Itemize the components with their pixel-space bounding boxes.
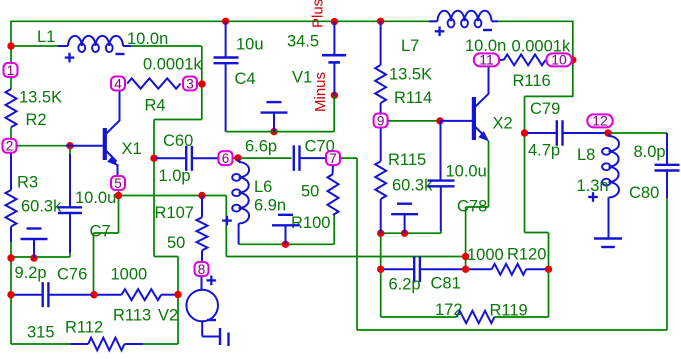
node 11 xyxy=(474,52,499,68)
node 9 xyxy=(374,113,388,128)
svg-text:C7: C7 xyxy=(90,223,111,241)
junction L6 ground xyxy=(282,241,289,248)
junction R115 ground xyxy=(401,230,408,237)
label R114 xyxy=(394,89,432,107)
wire L1 row left xyxy=(11,45,58,47)
wire C60 branch vertical xyxy=(153,120,155,257)
L1 minus mark xyxy=(116,53,125,55)
svg-text:3: 3 xyxy=(186,76,194,91)
svg-text:2: 2 xyxy=(6,139,14,154)
junction C79 left xyxy=(521,129,528,136)
label X2 xyxy=(493,115,513,133)
L7 minus mark xyxy=(483,29,492,31)
resistor R107 xyxy=(197,196,208,262)
wire node6 to C70 xyxy=(242,157,292,159)
value 6.2p of C81 xyxy=(389,276,421,294)
wire R119 right leg xyxy=(548,269,550,317)
wire top rail left segment xyxy=(11,20,438,22)
wire R120 top jog xyxy=(525,232,549,234)
label L8 xyxy=(577,146,595,164)
label R4 xyxy=(145,97,166,115)
svg-text:5: 5 xyxy=(114,176,122,191)
capacitor C78 xyxy=(428,121,455,231)
wire top rail right segment xyxy=(492,20,573,22)
wire L1 row drop to node3 xyxy=(201,46,203,84)
svg-text:V1: V1 xyxy=(292,69,312,87)
value 0.0001k of R4 xyxy=(143,56,202,74)
svg-text:1000: 1000 xyxy=(467,246,504,264)
svg-text:34.5: 34.5 xyxy=(287,33,319,51)
wire C7 branch top xyxy=(69,146,71,155)
wire R119 bottom row right xyxy=(494,316,548,318)
capacitor C79 xyxy=(527,120,605,146)
node 5 xyxy=(111,176,125,191)
value 10.0n of L7 xyxy=(465,37,506,55)
label C70 xyxy=(305,138,335,156)
wire R100 bottom lead xyxy=(333,215,335,244)
svg-text:10: 10 xyxy=(551,52,567,68)
source V2 xyxy=(186,277,219,337)
junction emitter bus xyxy=(462,253,469,260)
svg-text:4: 4 xyxy=(114,76,122,91)
value 172 of R119 xyxy=(435,301,463,319)
svg-text:13.5K: 13.5K xyxy=(19,89,62,107)
svg-text:60.3k: 60.3k xyxy=(392,177,433,195)
wire L6 bay drop xyxy=(225,196,227,257)
label R115 xyxy=(388,151,426,169)
label R2 xyxy=(26,111,47,129)
node 10 xyxy=(546,52,571,68)
ground R3 xyxy=(21,229,48,259)
svg-text:4.7p: 4.7p xyxy=(528,142,560,160)
value 13.5K of R114 xyxy=(389,66,432,84)
ground C4 xyxy=(261,102,288,132)
svg-text:1.0p: 1.0p xyxy=(159,167,191,185)
value 8.0p of C80 xyxy=(634,143,666,161)
battery V1 xyxy=(322,22,346,96)
wire L1 row right xyxy=(131,45,202,47)
wire R115 ground row xyxy=(381,232,441,234)
inductor L6 xyxy=(232,159,249,244)
label C4 xyxy=(235,70,256,88)
capacitor C70 xyxy=(294,145,326,171)
value 13.5K of R2 xyxy=(19,89,62,107)
junction C4 ground xyxy=(270,128,277,135)
svg-text:8.0p: 8.0p xyxy=(634,143,666,161)
resistor R114 xyxy=(375,21,386,113)
resistor R112 xyxy=(70,338,143,351)
svg-text:V2: V2 xyxy=(158,307,178,325)
value 60.3k of R115 xyxy=(392,177,433,195)
value 1000 of R120 xyxy=(467,246,504,264)
resistor R120 xyxy=(469,264,545,275)
junction X2 base xyxy=(436,117,443,124)
resistor R3 xyxy=(6,153,17,242)
wire left rail lower xyxy=(10,258,12,344)
capacitor C80 xyxy=(655,133,680,198)
svg-text:8: 8 xyxy=(198,262,206,277)
junction R3 bottom xyxy=(7,254,14,261)
resistor R115 xyxy=(375,128,386,233)
svg-text:C4: C4 xyxy=(235,70,256,88)
wire C4 bottom row xyxy=(226,131,335,133)
svg-text:315: 315 xyxy=(27,324,55,342)
label L1 xyxy=(37,28,55,46)
node 3 xyxy=(183,76,197,91)
value 315 of R112 xyxy=(27,324,55,342)
wire node7 right row xyxy=(340,157,357,159)
label V2 xyxy=(158,307,178,325)
junction R107 top xyxy=(198,192,205,199)
inductor L8 xyxy=(602,134,619,239)
wire C78 corner xyxy=(440,230,442,233)
svg-text:12: 12 xyxy=(592,113,608,129)
label C81 xyxy=(431,275,461,293)
ground R100 xyxy=(272,215,299,245)
transistor X2 xyxy=(440,67,489,142)
svg-text:R113: R113 xyxy=(113,307,151,325)
L1 plus mark xyxy=(65,53,75,63)
label C76 xyxy=(57,266,87,284)
value 50 of R107 xyxy=(167,234,185,252)
L6 plus mark xyxy=(222,216,232,226)
svg-text:10.0n: 10.0n xyxy=(127,30,168,48)
wire L6 bottom row xyxy=(239,243,335,245)
svg-text:C80: C80 xyxy=(629,184,659,202)
junction V1 Plus xyxy=(331,18,338,25)
label L6 xyxy=(254,178,272,196)
label R120 xyxy=(507,246,546,264)
svg-text:10.0u: 10.0u xyxy=(446,163,487,181)
wire C7 branch bottom xyxy=(69,252,71,257)
node 2 xyxy=(3,139,17,154)
svg-text:X2: X2 xyxy=(493,115,513,133)
label R116 xyxy=(513,72,551,90)
V2 minus mark xyxy=(207,319,216,321)
junction node6 right xyxy=(234,154,241,161)
svg-text:L6: L6 xyxy=(254,178,272,196)
value 6.9n of L6 xyxy=(254,197,286,215)
junction node3 right xyxy=(198,80,205,87)
value 6.6p of C70 xyxy=(245,138,277,156)
svg-text:7: 7 xyxy=(329,151,337,166)
value 1.3n of L8 xyxy=(577,177,609,195)
svg-text:10.0u: 10.0u xyxy=(75,189,116,207)
svg-text:R3: R3 xyxy=(17,174,38,192)
svg-text:R114: R114 xyxy=(394,89,432,107)
wire C79 left leg xyxy=(524,96,526,232)
capacitor C7 xyxy=(58,154,82,253)
label C78 xyxy=(457,198,487,216)
wire X2 emitter jog xyxy=(466,206,489,208)
label C60 xyxy=(163,132,193,150)
label X1 xyxy=(122,140,142,158)
label Minus of V1 xyxy=(312,72,329,112)
label C7 xyxy=(90,223,111,241)
wire emitter bus drop xyxy=(465,207,467,269)
wire node2-R3 via xyxy=(10,153,12,190)
label L7 xyxy=(401,37,419,55)
junction V1 Minus xyxy=(331,92,338,99)
wire bottom rail xyxy=(357,329,667,331)
svg-text:R119: R119 xyxy=(490,302,528,320)
wire R3 ground row xyxy=(11,256,70,258)
junction node10 right xyxy=(569,56,576,63)
junction R3 ground xyxy=(30,254,37,261)
node 12 xyxy=(587,113,612,129)
label V1 xyxy=(292,69,312,87)
svg-text:C60: C60 xyxy=(163,132,193,150)
wire X2 emitter drop xyxy=(488,141,490,207)
junction C60 left xyxy=(150,155,157,162)
wire node5 row xyxy=(119,195,227,197)
junction C76 left xyxy=(7,291,14,298)
node 8 xyxy=(195,262,209,277)
value 60.3k of R3 xyxy=(21,198,62,216)
junction R115 bottom xyxy=(377,230,384,237)
capacitor C60 xyxy=(156,146,218,171)
svg-text:6.6p: 6.6p xyxy=(245,138,277,156)
svg-text:0.0001k: 0.0001k xyxy=(143,56,202,74)
svg-text:R4: R4 xyxy=(145,97,166,115)
svg-text:C78: C78 xyxy=(457,198,487,216)
svg-text:R107: R107 xyxy=(155,204,194,222)
capacitor C4 xyxy=(214,21,239,131)
junction R114 top xyxy=(377,18,384,25)
wire top-right corner drop xyxy=(572,21,574,97)
value 10.0u of C7 xyxy=(75,189,116,207)
junction C76 right xyxy=(90,291,97,298)
junction C81 right xyxy=(462,266,469,273)
svg-text:R112: R112 xyxy=(65,319,103,337)
junction node12 below xyxy=(604,129,611,136)
svg-text:11: 11 xyxy=(479,52,494,68)
junction R120 right xyxy=(545,266,552,273)
wire jog to C60 branch xyxy=(154,119,202,121)
inductor L1 xyxy=(58,36,131,52)
svg-text:50: 50 xyxy=(301,183,319,201)
resistor R2 xyxy=(6,89,17,127)
label R112 xyxy=(65,319,103,337)
wire node1-R2 via xyxy=(10,77,12,89)
label R100 xyxy=(291,214,330,232)
node 7 xyxy=(326,151,340,166)
svg-text:9.2p: 9.2p xyxy=(15,264,47,282)
wire R120 riser xyxy=(548,233,550,270)
value 4.7p of C79 xyxy=(528,142,560,160)
wire C60 branch foot xyxy=(154,256,178,258)
ground V2 xyxy=(220,328,229,346)
wire right bus drop xyxy=(356,158,358,330)
svg-text:R2: R2 xyxy=(26,111,47,129)
label R3 xyxy=(17,174,38,192)
svg-text:C79: C79 xyxy=(530,100,560,118)
svg-text:R120: R120 xyxy=(507,246,546,264)
wire node3 stub xyxy=(197,83,202,85)
svg-text:60.3k: 60.3k xyxy=(21,198,62,216)
wire left rail xyxy=(10,21,12,64)
V2 plus mark xyxy=(207,276,217,286)
wire node5 drop xyxy=(118,191,120,234)
L7 plus mark xyxy=(435,27,445,37)
wire R2-node2 via xyxy=(10,127,12,138)
value 10.0u of C78 xyxy=(446,163,487,181)
svg-text:1: 1 xyxy=(7,63,15,78)
inductor L7 xyxy=(429,11,498,28)
capacitor C81 xyxy=(384,257,462,283)
value 0.0001k of R116 xyxy=(512,38,571,56)
capacitor C76 xyxy=(15,282,92,307)
label R113 xyxy=(113,307,151,325)
svg-text:L8: L8 xyxy=(577,146,595,164)
wire R119 bottom row left xyxy=(381,316,457,318)
wire node6 stub xyxy=(233,157,238,159)
node 6 xyxy=(219,151,233,166)
svg-text:1.3n: 1.3n xyxy=(577,177,609,195)
junction node5 below xyxy=(115,192,122,199)
svg-text:6.9n: 6.9n xyxy=(254,197,286,215)
svg-text:6: 6 xyxy=(222,151,230,166)
resistor R100 xyxy=(328,166,339,216)
wire V2 branch lower xyxy=(177,295,179,345)
wire node12 row xyxy=(611,132,667,134)
svg-text:R100: R100 xyxy=(291,214,330,232)
wire V1 bottom leg xyxy=(333,95,335,131)
svg-text:C81: C81 xyxy=(431,275,461,293)
wire R115 bay drop xyxy=(380,233,382,317)
junction X1 base xyxy=(66,142,73,149)
value 50 of R100 xyxy=(301,183,319,201)
wire node3 drop xyxy=(201,84,203,120)
node 1 xyxy=(4,63,18,78)
junction R113 right xyxy=(174,291,181,298)
wire drop to C76 xyxy=(93,233,95,295)
value 10.0n of L1 xyxy=(127,30,168,48)
transistor X1 xyxy=(66,91,120,177)
wire R3 bottom lead xyxy=(10,241,12,258)
ground L8 xyxy=(594,239,622,248)
label C79 xyxy=(530,100,560,118)
resistor R113 xyxy=(97,289,175,300)
value 10u of C4 xyxy=(236,36,264,54)
wire mid bus row xyxy=(226,256,465,258)
wire right bay top jog xyxy=(525,95,574,97)
svg-text:Minus: Minus xyxy=(312,72,329,112)
L8 plus mark xyxy=(588,192,598,202)
svg-text:10u: 10u xyxy=(236,36,264,54)
label R107 xyxy=(155,204,194,222)
label Plus of V1 xyxy=(310,0,327,28)
wire bottom left rail right part xyxy=(143,343,178,345)
value 1000 of R113 xyxy=(111,266,148,284)
resistor R4 xyxy=(127,78,180,88)
svg-text:R115: R115 xyxy=(388,151,426,169)
svg-text:X1: X1 xyxy=(122,140,142,158)
wire node2 to base junction xyxy=(17,145,66,147)
svg-text:6.2p: 6.2p xyxy=(389,276,421,294)
svg-text:R116: R116 xyxy=(513,72,551,90)
svg-text:50: 50 xyxy=(167,234,185,252)
wire bottom left rail xyxy=(11,343,70,345)
svg-text:1000: 1000 xyxy=(111,266,148,284)
svg-text:172: 172 xyxy=(435,301,463,319)
value 34.5 of V1 xyxy=(287,33,319,51)
label C80 xyxy=(629,184,659,202)
wire node5 jog xyxy=(94,232,119,234)
node 4 xyxy=(111,76,125,91)
junction left rail / L1 xyxy=(7,42,14,49)
wire node9 row xyxy=(389,120,441,122)
junction C4 top xyxy=(222,18,229,25)
value 1.0p of C60 xyxy=(159,167,191,185)
svg-text:L7: L7 xyxy=(401,37,419,55)
value 9.2p of C76 xyxy=(15,264,47,282)
wire C80 bottom leg xyxy=(666,198,668,330)
resistor R116 xyxy=(500,55,546,66)
svg-text:13.5K: 13.5K xyxy=(389,66,432,84)
wire V2 branch upper xyxy=(177,257,179,295)
svg-text:L1: L1 xyxy=(37,28,55,46)
resistor R119 xyxy=(457,311,495,323)
svg-text:9: 9 xyxy=(377,113,385,128)
junction C81 left xyxy=(377,266,384,273)
label R119 xyxy=(490,302,528,320)
svg-text:C76: C76 xyxy=(57,266,87,284)
ground R115 xyxy=(391,204,418,234)
svg-text:Plus: Plus xyxy=(310,0,327,28)
